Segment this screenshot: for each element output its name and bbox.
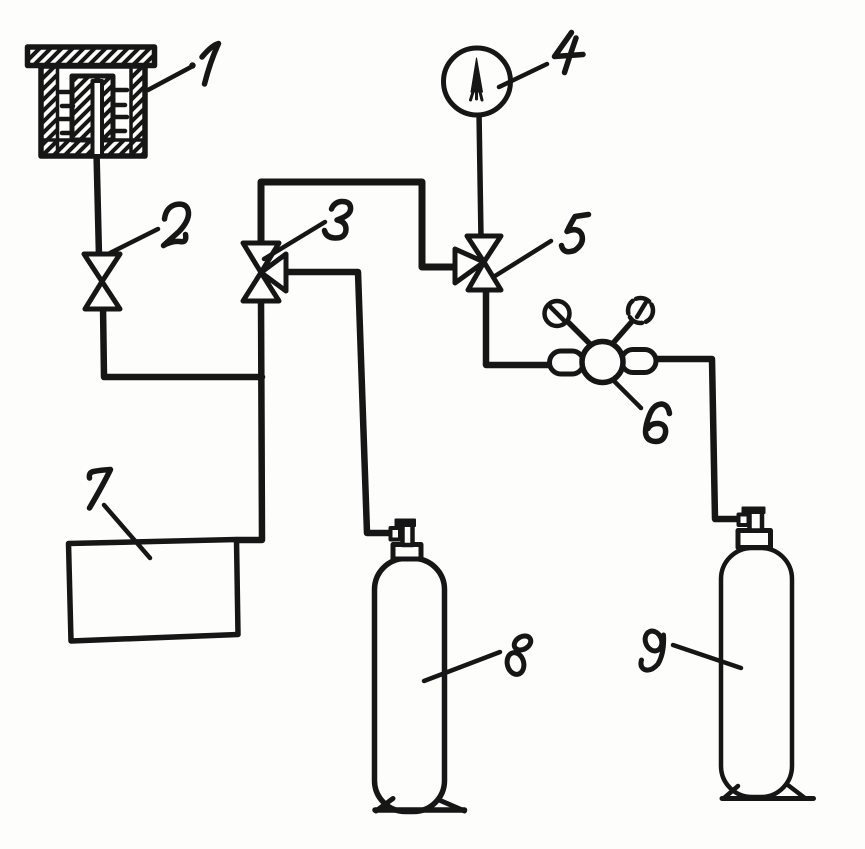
saturator U1 central tube: [93, 81, 103, 156]
saturator U1 inner vessel (hatched): [72, 76, 113, 140]
saturator U1 top flange (hatched bar): [28, 47, 155, 66]
saturator U1 left wall hatch: [41, 66, 58, 156]
label 1: [202, 44, 219, 85]
regulator 6 right gauge stalk: [614, 322, 632, 342]
regulator 6 right mini gauge: [628, 298, 653, 323]
cylinder 9 base line: [722, 796, 814, 801]
leader line for label 3: [264, 222, 325, 259]
regulator 6 left gauge stalk: [566, 320, 591, 345]
saturator U1 body outline: [41, 66, 145, 156]
regulator 6 left capsule: [550, 351, 584, 374]
wire valve 3 down to box 7: [237, 298, 262, 540]
cylinder 8 valve top bar: [396, 520, 416, 527]
label 5: [562, 215, 589, 252]
leader line for label 7: [104, 505, 150, 558]
saturator U1 right wall hatch: [131, 66, 145, 156]
wire from saturator 1 down to valve 2: [97, 152, 100, 256]
box 7 (tank): [69, 540, 239, 642]
leader line for label 4: [499, 64, 547, 87]
label 2: [164, 204, 189, 245]
saturator U1 bottom hatch band: [41, 140, 145, 156]
saturator U1 right liquid dashes: [113, 90, 127, 131]
leader line for label 1: [148, 67, 192, 91]
label 6: [646, 404, 670, 442]
leader line for label 2: [110, 229, 158, 253]
cylinder 8 base line: [375, 807, 465, 813]
cylinder 9 base legs: [724, 786, 806, 799]
label 9: [641, 629, 665, 671]
leader line for label 9: [673, 645, 741, 668]
regulator 6 right capsule: [622, 350, 657, 373]
saturator U1 left liquid dashes: [60, 92, 73, 133]
cylinder 8 body: [375, 559, 445, 812]
cylinder 8 valve stem: [403, 524, 413, 545]
pressure gauge 4 circle: [444, 48, 511, 115]
leader line for label 5: [495, 241, 551, 276]
label 4: [555, 33, 584, 73]
label 3: [325, 201, 351, 238]
wire regulator 6 to cylinder 9: [655, 359, 740, 519]
cylinder 8 collar: [393, 545, 421, 560]
label 8: [505, 633, 533, 676]
leader line for label 8: [424, 652, 500, 681]
regulator 6 left mini gauge: [545, 301, 570, 326]
wire gauge 4 down to valve 5: [479, 112, 481, 238]
cylinder 9 body: [721, 548, 792, 797]
cylinder 8 inlet nipple: [391, 528, 401, 540]
cylinder 9 collar: [738, 531, 771, 548]
cylinder 9 valve top bar: [743, 508, 765, 514]
cylinder 9 inlet nipple: [739, 515, 749, 526]
valve 3 (three-way valve): [243, 243, 286, 301]
valve 2 (two-way valve bowtie): [84, 254, 120, 309]
valve 5 (three-way valve): [455, 236, 501, 290]
wire valve 3 right port down to cylinder 8: [284, 272, 393, 533]
wire valve 3 up over to valve 5 left port: [261, 182, 458, 267]
label 7: [89, 470, 110, 509]
wire valve 5 bottom to regulator 6: [486, 288, 551, 365]
pressure gauge 4 needle: [471, 58, 483, 92]
cylinder 8 base legs: [376, 799, 465, 812]
leader line for label 6: [615, 382, 641, 408]
regulator 6 central body circle: [582, 342, 623, 383]
wire valve 2 bottom to valve 3 lower junction: [103, 306, 262, 377]
cylinder 9 valve stem: [750, 511, 763, 531]
